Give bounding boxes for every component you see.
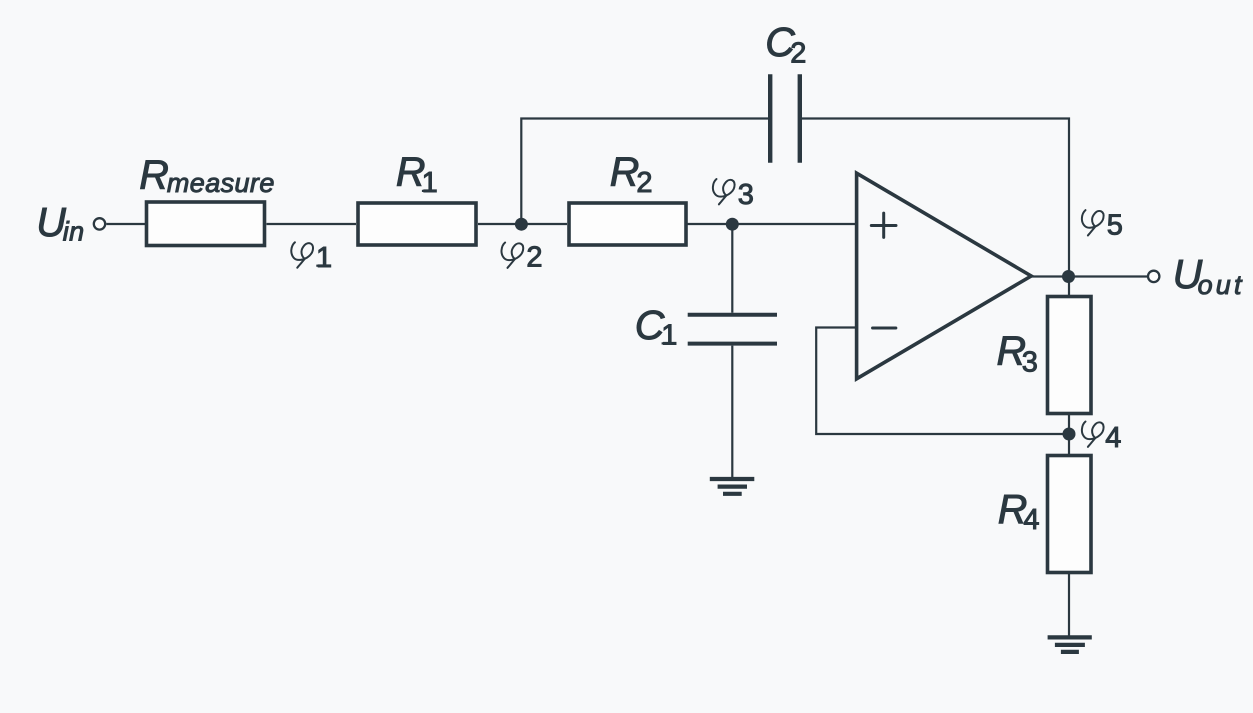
- op-amp minus input sign: [873, 327, 896, 330]
- wire C1 to ground: [731, 346, 733, 478]
- node phi5 junction dot: [1062, 270, 1075, 283]
- node phi2 junction dot: [515, 218, 528, 231]
- capacitor C1: [688, 315, 777, 344]
- wire R2 to op-amp through node phi3: [688, 223, 857, 225]
- resistor R3: [1048, 297, 1092, 414]
- svg-text:C: C: [635, 302, 665, 348]
- wire op-amp output to Uout terminal: [1031, 275, 1147, 277]
- wire input to Rmeasure: [106, 223, 146, 225]
- svg-text:4: 4: [1023, 504, 1039, 536]
- node phi4 label: [1082, 422, 1122, 454]
- svg-text:2: 2: [790, 37, 806, 69]
- wire phi2 up to C2 left plate: [521, 119, 768, 225]
- resistor R4: [1048, 456, 1092, 573]
- wire phi3 down to C1: [731, 224, 733, 313]
- ground under R4: [1048, 637, 1092, 652]
- node phi2 label: [501, 241, 542, 273]
- node phi3 junction dot: [726, 218, 739, 231]
- wire Rmeasure to R1: [267, 223, 357, 225]
- svg-text:measure: measure: [167, 168, 275, 198]
- wire C2 right plate to output node: [802, 119, 1069, 277]
- wire R3 to R4 through node phi4: [1068, 415, 1070, 456]
- resistor R2: [569, 203, 686, 245]
- svg-text:in: in: [63, 217, 85, 247]
- svg-text:5: 5: [1107, 210, 1123, 242]
- resistor R1: [358, 203, 476, 245]
- op-amp U1: [857, 173, 1032, 379]
- wire phi5 to R3: [1068, 277, 1070, 297]
- svg-text:1: 1: [661, 320, 677, 352]
- svg-text:3: 3: [738, 179, 754, 211]
- svg-text:4: 4: [1105, 422, 1121, 454]
- wire op-amp minus stub and feedback from phi4: [816, 328, 1069, 435]
- svg-text:1: 1: [422, 167, 438, 199]
- node phi4 junction dot: [1063, 428, 1076, 441]
- node phi1 label: [291, 242, 332, 274]
- svg-text:1: 1: [316, 242, 332, 274]
- input terminal: [94, 218, 105, 229]
- op-amp plus input sign: [871, 213, 896, 237]
- resistor Rmeasure: [147, 202, 265, 246]
- output terminal: [1148, 271, 1159, 282]
- svg-text:R: R: [139, 151, 169, 197]
- svg-text:U: U: [36, 199, 66, 245]
- svg-text:3: 3: [1022, 346, 1038, 378]
- svg-text:R: R: [610, 149, 640, 195]
- wire R4 to ground: [1068, 574, 1070, 638]
- ground under C1: [710, 479, 755, 494]
- svg-text:2: 2: [526, 241, 542, 273]
- node phi3 label: [713, 179, 754, 211]
- node phi5 label: [1082, 210, 1123, 242]
- svg-text:2: 2: [636, 167, 652, 199]
- wire R1 to R2 through node phi2: [478, 223, 567, 225]
- capacitor C2: [770, 74, 800, 162]
- svg-text:out: out: [1198, 270, 1245, 300]
